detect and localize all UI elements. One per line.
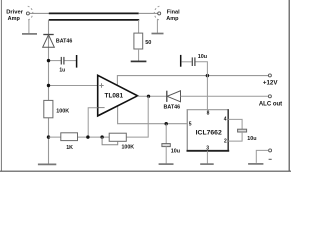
wire 50 ohm stub: [138, 20, 140, 33]
wire inverting input: [88, 108, 98, 137]
wire J1 shield down: [28, 19, 30, 33]
IC U2 ICL7662: [187, 109, 230, 151]
junction dot V+ rail: [206, 74, 209, 77]
wire 50 ohm to ground: [138, 49, 140, 61]
junction dot inverting tap: [86, 135, 89, 138]
ground C3: [159, 163, 174, 165]
wire bottom net: [49, 136, 110, 138]
capacitor C4 10u pump: [238, 129, 247, 132]
capacitor C2 10u top: [181, 55, 195, 67]
wire 1u cap tap: [49, 60, 62, 62]
resistor R4 50: [134, 33, 143, 49]
wire C4 to pin 2: [228, 132, 242, 141]
junction dot wiper tap: [100, 135, 103, 138]
svg-text:BAT46: BAT46: [164, 104, 181, 110]
wire thick RF line top: [49, 12, 139, 14]
terminal +12V: [268, 74, 271, 77]
junction dot plus input tap: [47, 84, 50, 87]
resistor R1 100K: [44, 100, 53, 117]
svg-text:ALC out: ALC out: [259, 102, 282, 108]
svg-text:10u: 10u: [247, 136, 256, 142]
svg-text:BAT46: BAT46: [56, 39, 72, 45]
wire feedback down: [126, 96, 148, 137]
wire J1 pin to thick line: [30, 12, 50, 14]
wire terminal to ground: [256, 150, 268, 163]
resistor R2 1K: [61, 133, 78, 141]
wire pin 3 to ground: [206, 151, 208, 164]
wire diode to ALC out: [181, 95, 269, 97]
connector J1 Driver Amp: [26, 6, 32, 20]
svg-text:Driver: Driver: [6, 10, 24, 16]
svg-text:1u: 1u: [59, 67, 65, 73]
label Final Amp: [166, 9, 180, 21]
svg-text:3: 3: [206, 145, 209, 151]
wire C2 to pin 8: [196, 62, 208, 110]
ground J2: [152, 33, 164, 35]
svg-text:+12V: +12V: [263, 80, 278, 87]
ground J1: [22, 33, 37, 35]
ground main left: [38, 163, 56, 165]
svg-text:Amp: Amp: [166, 16, 179, 22]
wire C3 to ground: [165, 147, 167, 164]
ground 50 ohm: [131, 60, 147, 62]
svg-text:4: 4: [224, 116, 227, 122]
wire main left vertical net: [48, 20, 50, 164]
wire op-amp output: [138, 95, 167, 97]
svg-text:50: 50: [145, 40, 151, 46]
svg-text:10u: 10u: [171, 148, 180, 154]
capacitor C1 1u: [61, 55, 76, 68]
wire thick line to J2 pin: [139, 12, 158, 14]
terminal negative output: [269, 149, 272, 152]
diode D1 BAT46 vertical: [43, 35, 55, 48]
junction dot 1u tap: [47, 59, 50, 62]
wire wiper link: [102, 137, 118, 145]
svg-text:5: 5: [189, 121, 192, 127]
wire V- to C3: [165, 124, 167, 144]
wire pin 4 to C4: [228, 119, 242, 129]
terminal ALC out: [268, 95, 271, 98]
junction dot V- rail: [165, 122, 168, 125]
wire V+ rail to +12V: [117, 76, 268, 86]
svg-text:2: 2: [224, 138, 227, 144]
potentiometer R3 100K: [109, 133, 126, 141]
junction dot bottom left: [47, 135, 50, 138]
label minus sign: [269, 158, 272, 160]
label Driver Amp: [6, 10, 24, 22]
connector J2 Final Amp: [154, 6, 160, 20]
wire V- stub and rail to pin5: [118, 105, 188, 124]
svg-text:1K: 1K: [66, 145, 73, 151]
wire thick RF line lower: [49, 19, 139, 21]
svg-text:Amp: Amp: [8, 16, 21, 22]
svg-text:ICL7662: ICL7662: [196, 129, 222, 136]
svg-text:TL081: TL081: [105, 92, 124, 99]
ground negative terminal: [248, 163, 263, 165]
svg-text:100K: 100K: [121, 145, 134, 151]
junction dot output: [147, 95, 150, 98]
capacitor C3 10u reservoir: [162, 144, 170, 147]
svg-text:100K: 100K: [56, 109, 69, 115]
op-amp U1 TL081: [98, 75, 138, 116]
wire J2 shield down: [156, 20, 158, 34]
ground pin 3: [200, 163, 214, 165]
svg-text:8: 8: [207, 111, 210, 117]
svg-text:Final: Final: [167, 9, 180, 15]
svg-text:10u: 10u: [198, 54, 207, 60]
diode D2 BAT46 horizontal: [167, 91, 181, 102]
wire noninverting input: [49, 85, 98, 87]
